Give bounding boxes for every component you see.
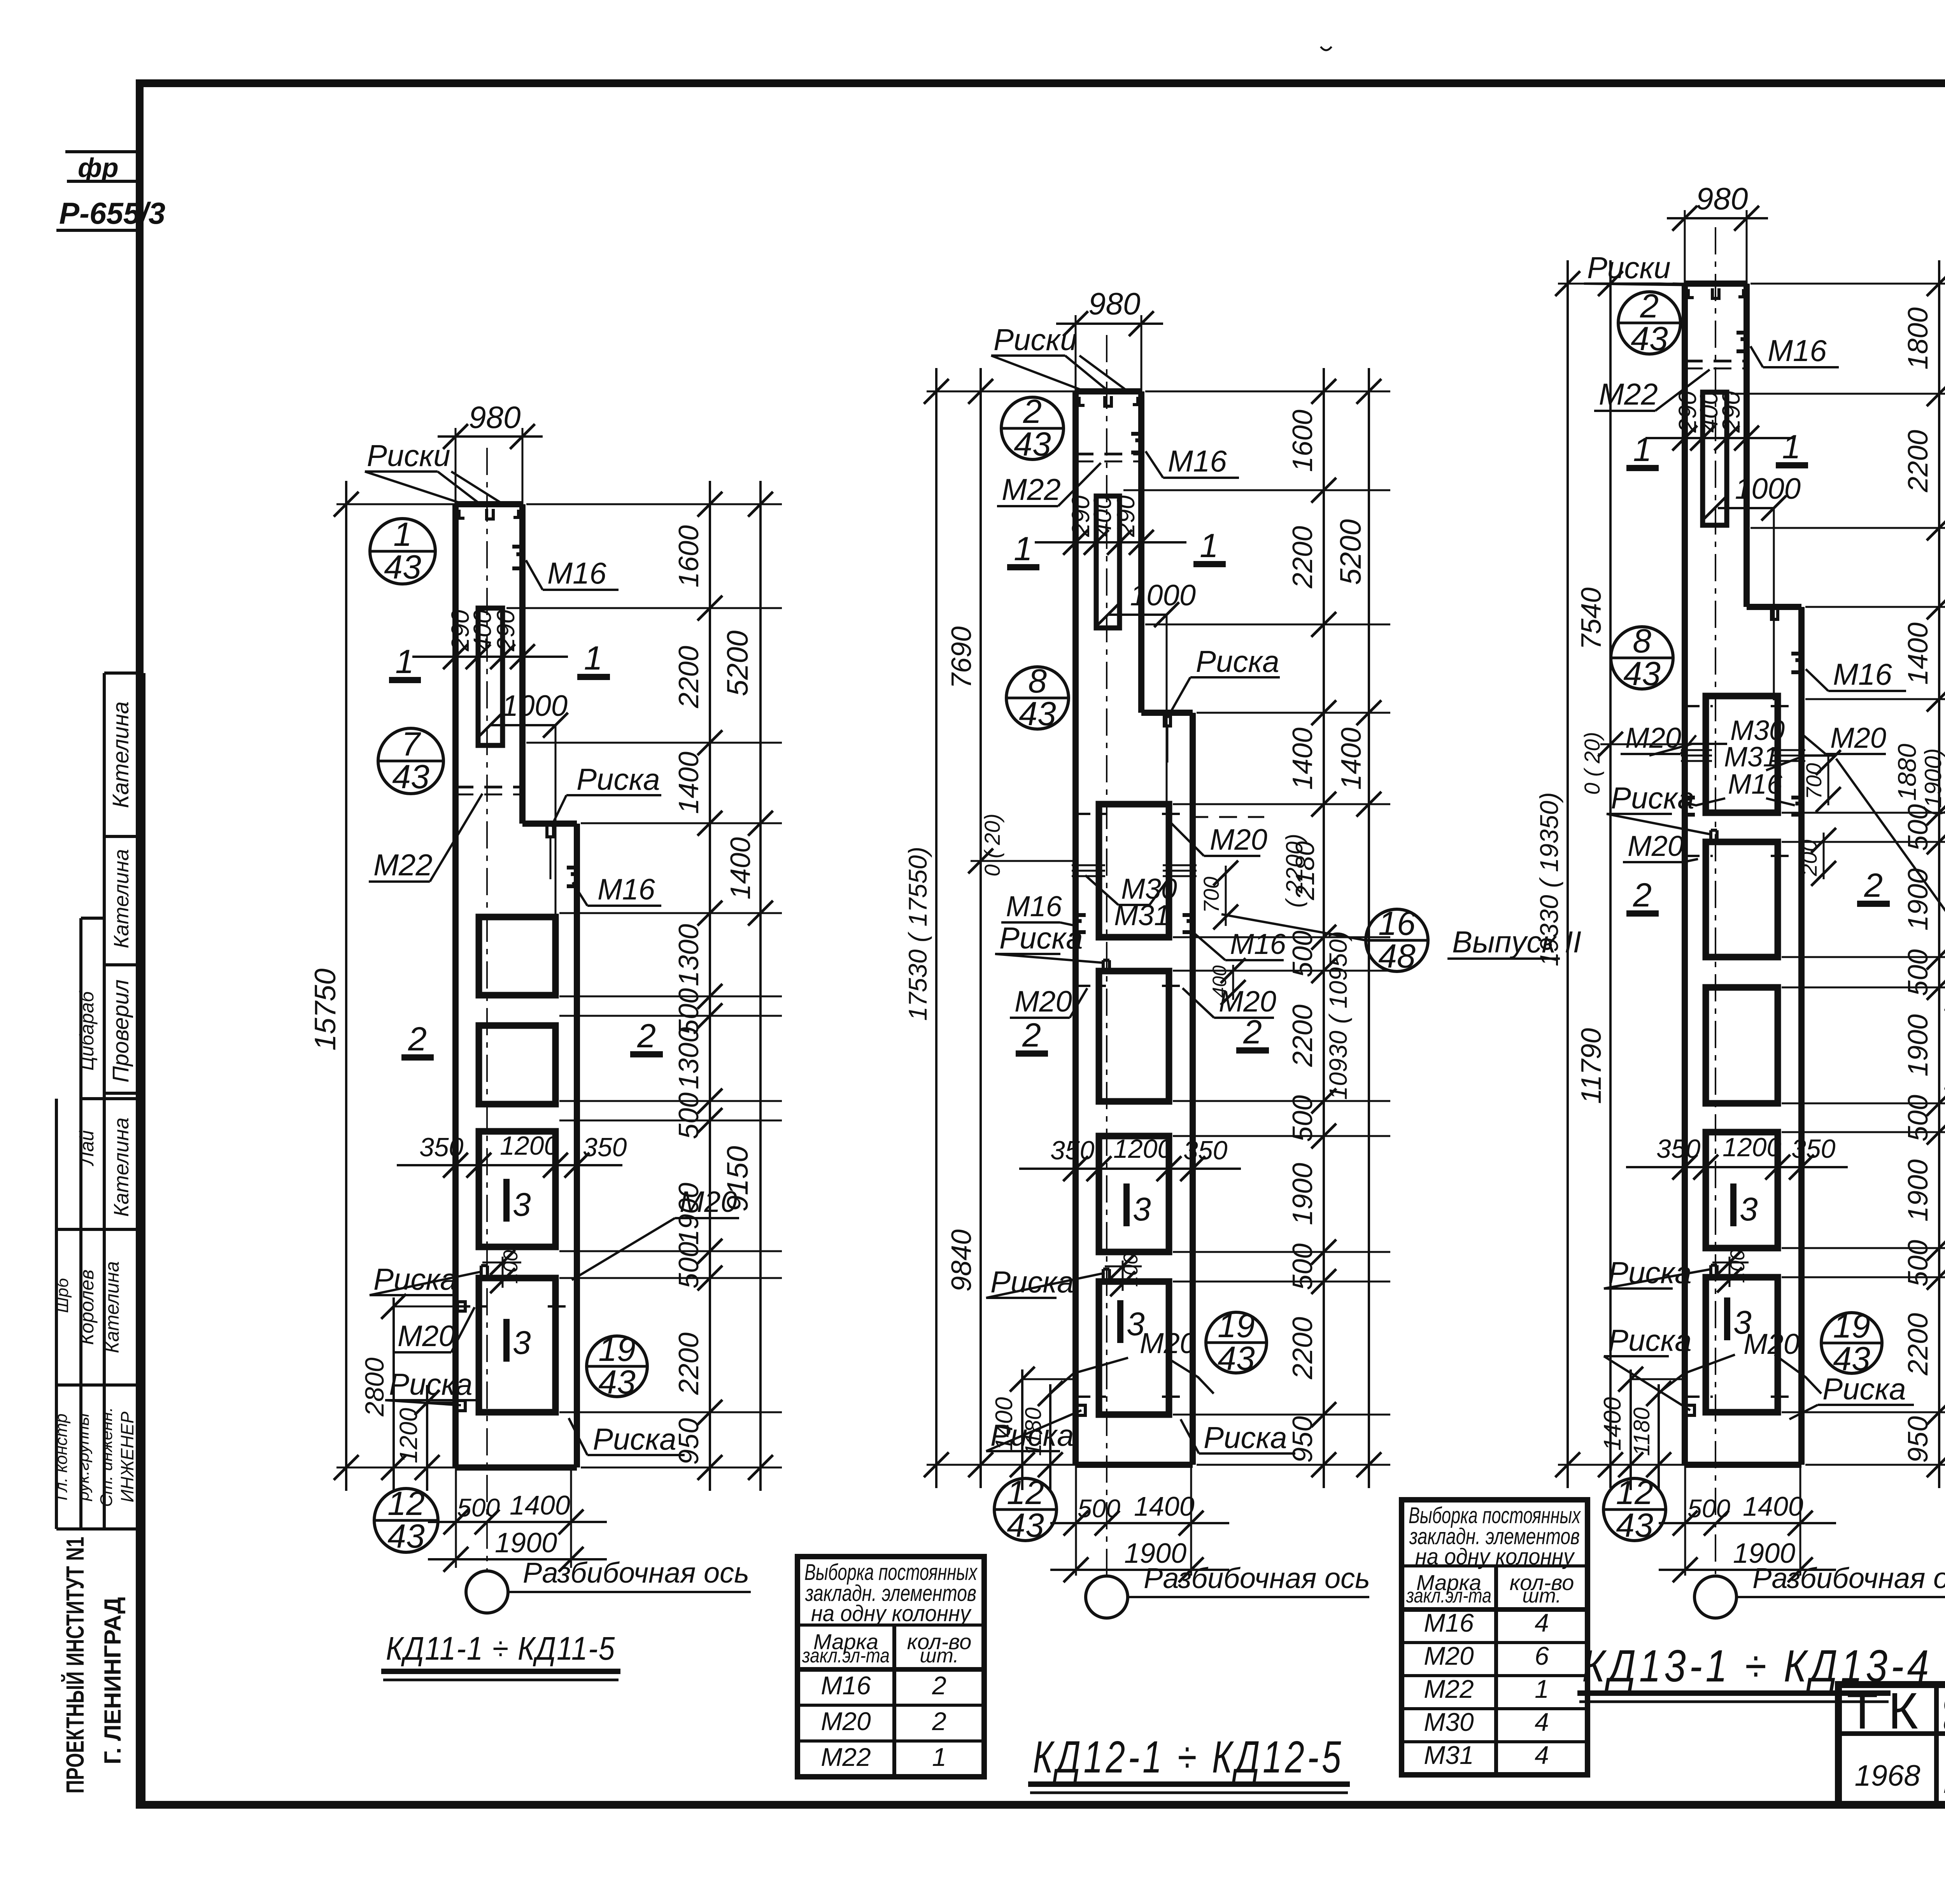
- top center mark: [1321, 47, 1332, 50]
- svg-text:11790: 11790: [1576, 1028, 1607, 1104]
- stamp FR: [65, 150, 140, 153]
- svg-text:43: 43: [1833, 1340, 1870, 1378]
- svg-text:М16: М16: [1728, 769, 1783, 800]
- svg-text:М20: М20: [1830, 722, 1886, 754]
- dim 700 KD13: [1828, 756, 1829, 805]
- svg-text:Риска: Риска: [389, 1367, 473, 1401]
- svg-text:2: 2: [408, 1020, 427, 1058]
- svg-text:43: 43: [392, 758, 429, 796]
- svg-text:шт.: шт.: [920, 1645, 958, 1667]
- right dims KD13: [1938, 260, 1940, 1488]
- svg-text:М22: М22: [1002, 472, 1061, 507]
- svg-text:Риска: Риска: [1608, 1323, 1692, 1357]
- slot KD13: [1703, 392, 1727, 525]
- svg-text:1300: 1300: [673, 924, 704, 986]
- svg-text:500: 500: [673, 1242, 704, 1289]
- svg-text:Кателина: Кателина: [108, 701, 133, 808]
- svg-text:ИНЖЕНЕР: ИНЖЕНЕР: [117, 1411, 137, 1503]
- svg-text:43: 43: [1014, 426, 1051, 463]
- svg-text:2: 2: [932, 1671, 946, 1700]
- svg-text:1400: 1400: [725, 837, 756, 899]
- svg-text:Шрб: Шрб: [53, 1277, 72, 1313]
- label M16 right KD12: [1183, 915, 1193, 932]
- opening D KD13: [1706, 1132, 1778, 1248]
- opening C KD12: [1099, 1136, 1169, 1252]
- svg-text:М16: М16: [547, 556, 606, 590]
- svg-text:М20: М20: [1625, 722, 1681, 754]
- svg-text:1900: 1900: [495, 1527, 557, 1559]
- svg-text:5200: 5200: [1334, 519, 1367, 585]
- svg-text:9840: 9840: [946, 1229, 977, 1292]
- svg-text:2: 2: [1022, 1017, 1041, 1054]
- svg-text:Риска: Риска: [1204, 1420, 1287, 1455]
- dim 980 top KD12: [1075, 315, 1077, 391]
- label 3 opening3: [503, 1179, 510, 1222]
- svg-text:2: 2: [1023, 393, 1042, 430]
- dim 290 400 290 KD12: [1035, 541, 1186, 543]
- svg-text:М16: М16: [1833, 657, 1892, 691]
- svg-text:1400: 1400: [1287, 728, 1318, 790]
- svg-text:16: 16: [1378, 905, 1416, 942]
- svg-text:закл.эл-та: закл.эл-та: [802, 1645, 890, 1667]
- svg-text:1400: 1400: [1336, 728, 1367, 790]
- bottom dims col1: [455, 1467, 457, 1568]
- svg-text:10930 ( 10950): 10930 ( 10950): [1324, 931, 1352, 1100]
- svg-text:950: 950: [673, 1418, 704, 1465]
- svg-text:1200: 1200: [394, 1408, 422, 1463]
- left dims KD12: [935, 368, 937, 1488]
- svg-text:1400: 1400: [1599, 1397, 1626, 1451]
- title block: [1838, 1685, 1945, 1805]
- svg-text:1600: 1600: [673, 525, 704, 587]
- svg-text:1600: 1600: [1287, 410, 1318, 472]
- svg-text:2: 2: [1633, 877, 1652, 914]
- svg-text:2800: 2800: [360, 1357, 389, 1417]
- svg-text:17530 ( 17550): 17530 ( 17550): [903, 847, 932, 1021]
- svg-text:2200: 2200: [1903, 1313, 1934, 1376]
- label 3 opening C KD12: [1123, 1183, 1130, 1226]
- dim 15750: [336, 503, 456, 505]
- svg-text:43: 43: [384, 549, 421, 586]
- svg-text:Лай: Лай: [76, 1130, 98, 1166]
- svg-text:43: 43: [598, 1364, 636, 1401]
- svg-text:Кателина: Кателина: [110, 849, 133, 948]
- svg-text:М16: М16: [1006, 890, 1062, 922]
- svg-text:19: 19: [1218, 1307, 1255, 1345]
- svg-text:1: 1: [584, 640, 603, 677]
- mark circle 12/43: [374, 1488, 438, 1552]
- svg-text:12730 ( 12750): 12730 ( 12750): [1940, 1005, 1945, 1174]
- svg-text:7: 7: [401, 726, 421, 763]
- svg-text:1200: 1200: [1722, 1133, 1781, 1162]
- svg-text:4: 4: [1535, 1741, 1549, 1769]
- razbivochnaya os KD12: [1086, 1576, 1128, 1618]
- mark circle 19/43: [587, 1336, 647, 1397]
- opening C KD13: [1706, 987, 1778, 1103]
- svg-text:1000: 1000: [1735, 472, 1801, 505]
- svg-text:2200: 2200: [673, 1332, 704, 1395]
- column KD13 elevation: [1715, 227, 1716, 1576]
- svg-text:М22: М22: [821, 1743, 871, 1771]
- svg-text:12: 12: [1616, 1474, 1653, 1511]
- svg-text:290: 290: [492, 610, 520, 652]
- svg-text:М20: М20: [821, 1707, 871, 1736]
- svg-text:Риска: Риска: [576, 762, 660, 796]
- dim 200 KD13: [1823, 833, 1825, 879]
- mark circle 1/43: [370, 519, 435, 584]
- svg-text:12: 12: [387, 1485, 425, 1522]
- slot KD12: [1096, 496, 1120, 628]
- svg-text:4: 4: [1535, 1708, 1549, 1736]
- dim 290 400 290 KD13: [1645, 437, 1793, 439]
- svg-text:350: 350: [1791, 1134, 1836, 1164]
- svg-text:43: 43: [1623, 655, 1661, 693]
- svg-text:М20: М20: [1210, 823, 1267, 856]
- svg-text:290: 290: [1112, 495, 1140, 537]
- bottom dims KD12: [1075, 1465, 1077, 1576]
- svg-text:43: 43: [1616, 1507, 1653, 1544]
- svg-text:2200: 2200: [1903, 430, 1934, 493]
- dim 290 400 290: [412, 656, 568, 658]
- svg-text:2: 2: [637, 1017, 656, 1055]
- opening 1: [479, 917, 555, 995]
- svg-text:980: 980: [1696, 181, 1748, 216]
- svg-text:1180: 1180: [1021, 1408, 1046, 1456]
- svg-text:ПРОЕКТНЫЙ ИНСТИТУТ N1: ПРОЕКТНЫЙ ИНСТИТУТ N1: [61, 1537, 89, 1794]
- svg-text:500: 500: [1287, 931, 1318, 977]
- svg-text:1400: 1400: [991, 1397, 1018, 1451]
- svg-text:М16: М16: [1768, 333, 1827, 368]
- svg-text:1200: 1200: [500, 1131, 559, 1161]
- svg-text:Гл. констр: Гл. констр: [52, 1413, 71, 1500]
- razbivochnaya os: [466, 1571, 508, 1613]
- opening 2: [479, 1026, 555, 1104]
- svg-text:700: 700: [1801, 763, 1826, 799]
- opening E KD13: [1706, 1277, 1778, 1412]
- svg-text:1: 1: [1633, 431, 1652, 468]
- label 3 opening D KD12: [1117, 1300, 1123, 1343]
- vypusk II callout KD12: [1366, 909, 1428, 971]
- svg-text:Риски: Риски: [1587, 251, 1671, 285]
- mark circle 2/43: [1001, 397, 1064, 459]
- svg-text:43: 43: [1007, 1507, 1044, 1544]
- svg-text:рук.группы: рук.группы: [74, 1413, 93, 1502]
- svg-text:500: 500: [1687, 1494, 1730, 1523]
- svg-text:1: 1: [1200, 527, 1218, 565]
- mark circle 19/43 KD13: [1821, 1313, 1882, 1373]
- svg-text:48: 48: [1378, 938, 1416, 975]
- svg-text:19: 19: [1833, 1308, 1870, 1345]
- vyborka table KD11: [797, 1557, 984, 1777]
- svg-text:Кателина: Кателина: [110, 1117, 133, 1217]
- svg-text:500: 500: [1903, 949, 1934, 996]
- svg-text:7540: 7540: [1576, 587, 1607, 650]
- svg-text:500: 500: [1903, 1095, 1934, 1141]
- svg-text:1900: 1900: [1287, 1163, 1318, 1225]
- svg-text:1968: 1968: [1854, 1759, 1920, 1792]
- svg-text:500: 500: [1078, 1494, 1120, 1523]
- svg-text:500: 500: [673, 1092, 704, 1139]
- mark circle 7/43: [378, 728, 443, 794]
- svg-text:Риска: Риска: [999, 921, 1083, 955]
- dim 400 right KD12: [1232, 965, 1234, 1000]
- svg-text:6: 6: [1535, 1641, 1549, 1670]
- svg-text:2: 2: [1640, 288, 1659, 325]
- svg-text:Р-655/3: Р-655/3: [59, 196, 165, 230]
- svg-text:М16: М16: [1230, 928, 1286, 960]
- left dims KD13: [1567, 260, 1569, 1488]
- svg-text:М20: М20: [1424, 1641, 1474, 1670]
- svg-text:(1900): (1900): [1920, 748, 1945, 815]
- svg-text:Риски: Риски: [994, 323, 1077, 357]
- mark circle 8/43 KD13: [1611, 627, 1673, 689]
- svg-text:1000: 1000: [502, 689, 568, 722]
- svg-text:Риска: Риска: [1196, 644, 1279, 678]
- svg-text:на одну колонну: на одну колонну: [811, 1601, 972, 1626]
- svg-text:0 ( 20): 0 ( 20): [980, 813, 1004, 877]
- svg-text:Риска: Риска: [1611, 781, 1694, 815]
- opening A KD13: [1706, 696, 1778, 813]
- right dimension chains col1: [697, 492, 722, 517]
- svg-text:2200: 2200: [1287, 1317, 1318, 1380]
- label M16: [512, 547, 522, 568]
- svg-text:1200: 1200: [1113, 1134, 1172, 1164]
- svg-text:4: 4: [1535, 1608, 1549, 1637]
- svg-text:43: 43: [387, 1518, 425, 1555]
- svg-text:1400: 1400: [1903, 622, 1934, 685]
- slot (groove): [478, 608, 503, 745]
- right dims KD12: [1323, 368, 1325, 1488]
- svg-text:500: 500: [457, 1493, 500, 1522]
- dim 1000 KD12: [1109, 614, 1167, 616]
- label 3 opening E KD13: [1724, 1297, 1730, 1340]
- svg-text:15750: 15750: [309, 968, 342, 1050]
- dim 350 1200 350: [397, 1164, 622, 1166]
- mark circle 19/43 KD12: [1206, 1312, 1267, 1373]
- svg-text:8: 8: [1028, 663, 1047, 700]
- svg-text:980: 980: [469, 400, 520, 435]
- dim 350 1200 350 KD13: [1626, 1166, 1848, 1168]
- svg-text:1: 1: [393, 516, 412, 553]
- svg-text:1400: 1400: [673, 752, 704, 814]
- svg-text:1180: 1180: [1629, 1408, 1654, 1456]
- svg-text:1880: 1880: [1892, 743, 1921, 801]
- dim 700 right KD12: [1225, 866, 1227, 926]
- svg-text:М30: М30: [1424, 1708, 1474, 1736]
- svg-text:2: 2: [932, 1707, 946, 1736]
- svg-text:2200: 2200: [1287, 1005, 1318, 1067]
- svg-text:М20: М20: [1015, 985, 1072, 1018]
- svg-text:Цибараб: Цибараб: [76, 991, 98, 1071]
- svg-text:500: 500: [1287, 1243, 1318, 1290]
- svg-text:980: 980: [1088, 286, 1140, 321]
- svg-text:1400: 1400: [1134, 1491, 1195, 1522]
- svg-text:М31: М31: [1424, 1741, 1474, 1769]
- svg-text:ТК: ТК: [1847, 1682, 1928, 1739]
- dims 1400 1180 KD13: [1630, 1369, 1632, 1490]
- svg-text:1800: 1800: [1903, 307, 1934, 370]
- svg-text:700: 700: [1199, 877, 1223, 913]
- svg-text:Проверил: Проверил: [108, 979, 133, 1082]
- svg-text:350: 350: [1656, 1134, 1701, 1164]
- svg-text:5200: 5200: [721, 630, 754, 696]
- svg-text:КД12-1÷КД12-5; КД 13-1÷ КД 1: КД12-1÷КД12-5; КД 13-1÷ КД 13— 4.: [1943, 1770, 1945, 1798]
- label M16 right KD13: [1791, 654, 1801, 672]
- svg-text:43: 43: [1019, 695, 1056, 733]
- svg-text:1: 1: [1535, 1674, 1549, 1703]
- svg-text:с проходами в уровне подкранов: с проходами в уровне подкрановых балок: [1943, 1708, 1945, 1736]
- svg-text:М20: М20: [398, 1320, 455, 1353]
- svg-text:шт.: шт.: [1522, 1585, 1561, 1607]
- opening B KD12: [1099, 971, 1169, 1101]
- opening D KD12: [1099, 1282, 1169, 1415]
- mark circle 8/43: [1006, 667, 1069, 729]
- svg-text:1400: 1400: [510, 1490, 570, 1520]
- svg-text:М16: М16: [598, 873, 655, 906]
- opening B KD13: [1706, 842, 1778, 957]
- svg-text:43: 43: [1218, 1340, 1255, 1377]
- vyborka table KD12: [1402, 1500, 1588, 1775]
- svg-text:350: 350: [1050, 1136, 1095, 1165]
- svg-text:Кателина: Кателина: [101, 1261, 123, 1353]
- svg-text:2200: 2200: [1287, 526, 1318, 589]
- label M16 left KD12: [1076, 915, 1086, 932]
- svg-text:КД11-1 ÷ КД11-5: КД11-1 ÷ КД11-5: [386, 1630, 615, 1667]
- svg-text:Королев: Королев: [76, 1269, 98, 1345]
- svg-text:950: 950: [1287, 1416, 1318, 1463]
- svg-text:200: 200: [1797, 840, 1821, 876]
- dim 350 1200 350 KD12: [1019, 1168, 1241, 1170]
- svg-text:3: 3: [513, 1186, 531, 1223]
- svg-text:Г. ЛЕНИНГРАД: Г. ЛЕНИНГРАД: [100, 1597, 126, 1764]
- svg-text:1900: 1900: [673, 1183, 704, 1245]
- svg-text:9150: 9150: [721, 1146, 754, 1211]
- svg-text:1900: 1900: [1903, 1014, 1934, 1076]
- svg-text:350: 350: [1183, 1136, 1228, 1165]
- dim 1000: [490, 724, 555, 726]
- svg-text:1: 1: [395, 643, 414, 680]
- svg-text:8: 8: [1633, 622, 1651, 660]
- column KD12 elevation: [1106, 335, 1107, 1576]
- svg-text:1000: 1000: [1130, 579, 1196, 612]
- svg-text:1: 1: [1782, 428, 1801, 466]
- dims 2800 1200: [393, 1297, 395, 1491]
- dims 1400 1180 KD12: [1021, 1369, 1023, 1490]
- svg-text:1300: 1300: [673, 1027, 704, 1089]
- svg-text:350: 350: [583, 1133, 627, 1162]
- svg-text:500: 500: [1903, 1240, 1934, 1287]
- svg-text:1: 1: [932, 1743, 946, 1771]
- svg-text:М20: М20: [1628, 830, 1684, 862]
- label 3 opening D KD13: [1730, 1183, 1736, 1226]
- dim 980 top: [455, 428, 457, 504]
- svg-text:2: 2: [1864, 867, 1883, 904]
- svg-text:М20: М20: [1743, 1328, 1800, 1360]
- mark circle 2/43 KD13: [1618, 292, 1680, 354]
- svg-text:290: 290: [1717, 391, 1745, 433]
- svg-text:950: 950: [1903, 1416, 1934, 1463]
- svg-text:2200: 2200: [673, 646, 704, 708]
- label 3 opening4: [503, 1319, 510, 1362]
- svg-text:19330 ( 19350): 19330 ( 19350): [1535, 792, 1563, 966]
- svg-text:43: 43: [1631, 320, 1668, 358]
- svg-text:1400: 1400: [1743, 1491, 1803, 1522]
- svg-text:12: 12: [1007, 1474, 1044, 1511]
- svg-text:( 2200): ( 2200): [1281, 834, 1307, 908]
- svg-text:1: 1: [1014, 530, 1032, 568]
- svg-text:М16: М16: [821, 1671, 871, 1700]
- svg-text:на одну колонну: на одну колонну: [1415, 1544, 1575, 1569]
- dim 980 top KD13: [1684, 210, 1686, 284]
- svg-text:М20: М20: [1140, 1327, 1196, 1359]
- svg-text:фр: фр: [78, 153, 119, 183]
- svg-text:3: 3: [1133, 1191, 1151, 1227]
- svg-text:М22: М22: [1424, 1674, 1474, 1703]
- svg-text:3: 3: [1740, 1191, 1758, 1227]
- opening A KD12: [1099, 804, 1169, 937]
- razbivochnaya os KD13: [1694, 1576, 1736, 1618]
- opening 3: [479, 1131, 555, 1247]
- mark circle 12/43 KD12: [994, 1478, 1057, 1541]
- svg-text:0 ( 20): 0 ( 20): [1580, 732, 1604, 795]
- svg-text:М22: М22: [373, 848, 433, 882]
- svg-text:М16: М16: [1168, 444, 1227, 478]
- svg-text:1900: 1900: [1903, 868, 1934, 931]
- column KD11 elevation: [486, 448, 488, 1572]
- svg-text:Риски: Риски: [367, 438, 450, 473]
- label M16 KD12 top: [1131, 434, 1141, 452]
- svg-text:2: 2: [1243, 1013, 1262, 1051]
- svg-text:закл.эл-та: закл.эл-та: [1406, 1585, 1491, 1607]
- svg-text:Риска: Риска: [593, 1422, 676, 1456]
- dim 1000 KD13: [1718, 507, 1774, 509]
- svg-text:КД12-1 ÷ КД12-5: КД12-1 ÷ КД12-5: [1033, 1732, 1344, 1782]
- opening 4: [479, 1278, 555, 1412]
- svg-text:Разбибочная ось: Разбибочная ось: [523, 1557, 749, 1589]
- label M16 second: [567, 868, 577, 886]
- bottom dims KD13: [1684, 1465, 1686, 1576]
- svg-text:500: 500: [1287, 1095, 1318, 1142]
- svg-text:3: 3: [513, 1324, 531, 1361]
- svg-text:Ст. инженн.: Ст. инженн.: [97, 1407, 116, 1507]
- svg-text:Разбибочная ось: Разбибочная ось: [1144, 1562, 1370, 1594]
- svg-text:7690: 7690: [946, 626, 977, 689]
- mark circle 12/43 KD13: [1603, 1478, 1666, 1541]
- svg-text:1900: 1900: [1903, 1159, 1934, 1222]
- signature table (rotated): [142, 673, 145, 1805]
- svg-text:350: 350: [419, 1133, 464, 1162]
- svg-text:Разбибочная ось: Разбибочная ось: [1752, 1562, 1945, 1594]
- svg-text:19: 19: [598, 1331, 636, 1368]
- svg-text:М16: М16: [1424, 1608, 1474, 1637]
- svg-text:М22: М22: [1599, 377, 1658, 411]
